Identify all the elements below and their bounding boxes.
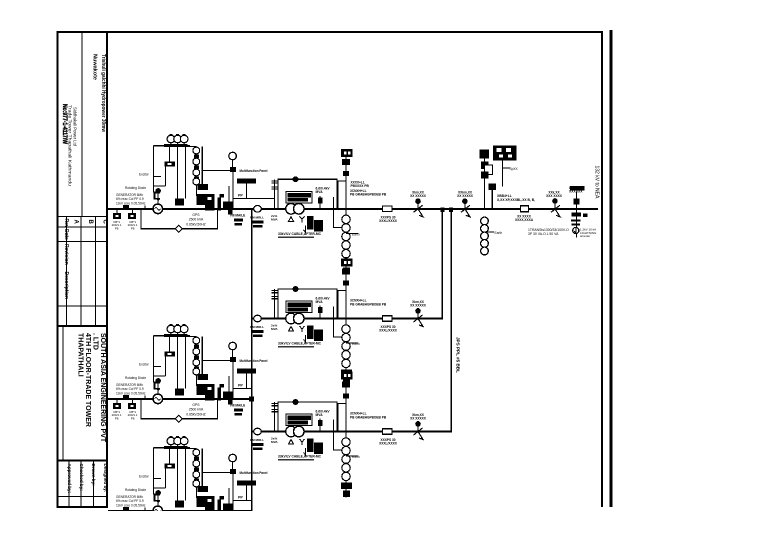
tie line x251 from bus1 down	[251, 209, 253, 511]
MAIN BUS 1	[108, 208, 598, 210]
earth stub x484	[485, 231, 495, 233]
svg-text:Revision: Revision	[63, 244, 69, 265]
divider between owner cell and project cell	[81, 32, 83, 217]
svg-text:Checked by:: Checked by:	[79, 464, 84, 492]
svg-text:arrester: arrester	[580, 234, 590, 238]
TITLEBLOCK	[57, 31, 603, 508]
by-table divider 2	[80, 461, 82, 507]
feeder2 riser x442	[441, 209, 443, 319]
UNIT 3 bus (clipped)	[108, 510, 252, 512]
svg-text:XXXX,XXXA: XXXX,XXXA	[515, 218, 534, 222]
svg-text:. LTD: . LTD	[92, 333, 99, 350]
grid transformer black box left	[480, 150, 490, 159]
rev table column divider C	[95, 217, 97, 327]
grid transformer drop left	[484, 159, 486, 209]
by-table top line	[57, 460, 107, 462]
grid transformer big black box	[493, 146, 517, 161]
rev table top line	[57, 216, 107, 218]
svg-text:A: A	[73, 220, 79, 225]
LA small square right	[583, 214, 588, 218]
svg-text:Drawn by:: Drawn by:	[91, 464, 96, 487]
drop component white box	[485, 165, 493, 175]
unit1 transformer block on bus1	[250, 176, 427, 238]
svg-text:Nuwakote: Nuwakote	[92, 54, 98, 80]
drop component b	[481, 172, 489, 179]
CT stack below bus x484	[481, 217, 489, 255]
junction tee feeder3 riser	[449, 207, 453, 212]
FEEDER 3 line	[252, 431, 453, 433]
LA top tee	[570, 186, 585, 191]
svg-text:C: C	[102, 220, 108, 225]
spare stub	[503, 167, 511, 169]
UNIT 2 bus	[108, 398, 252, 400]
CT column at feeder3	[338, 372, 360, 498]
FEEDER 2 line	[252, 318, 444, 320]
generator unit 1	[108, 135, 268, 233]
right border outer line	[610, 30, 613, 507]
svg-text:132 kV to NEA: 132 kV to NEA	[594, 166, 600, 199]
feeder 3 block	[250, 399, 427, 461]
unit1 PP line extension	[252, 197, 275, 199]
svg-text:Earth: Earth	[495, 231, 503, 235]
title block right edge	[106, 31, 108, 508]
rev table column divider B	[80, 217, 82, 327]
rev table column divider A	[66, 217, 68, 327]
LA square upper	[574, 199, 580, 205]
svg-text:Trade Tower Thapathali Kathman: Trade Tower Thapathali Kathmandu	[68, 105, 73, 186]
svg-text:Designed by:: Designed by:	[103, 464, 108, 493]
CT rect on bus	[521, 206, 529, 212]
rev table bottom thick line	[57, 325, 107, 327]
generator unit 3	[108, 437, 268, 535]
sheet top border	[57, 31, 603, 33]
svg-text:3P 30 VA-O.L 50 VA: 3P 30 VA-O.L 50 VA	[528, 232, 559, 236]
LA column vertical	[576, 192, 578, 238]
drop component c	[489, 184, 497, 191]
LA circle arrow	[574, 228, 576, 233]
svg-text:JPS PPL #5 BBL: JPS PPL #5 BBL	[456, 337, 461, 373]
svg-text:PBXXXX PB: PBXXXX PB	[351, 184, 370, 188]
svg-text:Rev: Rev	[63, 219, 69, 228]
svg-text:XX XXXXX: XX XXXXX	[457, 194, 474, 198]
by-table label row bottom line	[57, 496, 107, 498]
svg-text:Approved by:: Approved by:	[67, 464, 72, 494]
company cell inner left line	[62, 326, 64, 461]
svg-text:SOUTH ASIA ENGINEERING PVT: SOUTH ASIA ENGINEERING PVT	[99, 333, 106, 443]
isolator 630A bus1 right	[552, 198, 558, 204]
svg-text:No:977-1-4117/W: No:977-1-4117/W	[61, 104, 67, 144]
grid transformer drop right	[502, 161, 504, 187]
svg-text:4TH FLOOR-TRADE TOWER: 4TH FLOOR-TRADE TOWER	[84, 333, 91, 427]
junction tee feeder2 riser	[440, 207, 444, 212]
svg-text:THAPATHALI: THAPATHALI	[77, 333, 84, 377]
by-table divider 3	[92, 461, 94, 507]
sheet left border	[56, 31, 58, 508]
feeder3 riser x451	[450, 209, 452, 432]
svg-text:Description: Description	[63, 272, 69, 300]
drop line to bus	[491, 190, 493, 209]
rev table row line 3	[57, 241, 107, 243]
feeder 2 block	[250, 286, 427, 348]
CT column at bus1	[338, 149, 360, 275]
LA circle	[573, 227, 579, 233]
LA tee below bus	[572, 213, 582, 217]
generator unit 2	[108, 325, 268, 423]
CT column at feeder2	[338, 259, 360, 385]
junction tee unit2 bus	[249, 396, 254, 401]
title block bottom border	[57, 506, 108, 508]
rev table row line 4	[57, 305, 107, 307]
LA double bars	[571, 220, 581, 222]
svg-text:XXX XXXX: XXX XXXX	[546, 194, 563, 198]
svg-text:X,XX XP,XXXBL,XX B, B,: X,XX XP,XXXBL,XX B, B,	[497, 198, 535, 202]
by-table divider 1	[68, 461, 70, 507]
isolator 630A bus1 mid	[462, 198, 468, 204]
svg-text:SpXX: SpXX	[510, 167, 519, 171]
rev table row line 2	[57, 226, 107, 228]
right border inner line	[601, 31, 603, 507]
svg-text:Trishuli galchhi Hydropower 30: Trishuli galchhi Hydropower 30mw	[100, 54, 106, 133]
svg-text:B: B	[87, 220, 93, 225]
svg-text:Date: Date	[63, 229, 69, 240]
drop component a	[481, 162, 489, 170]
